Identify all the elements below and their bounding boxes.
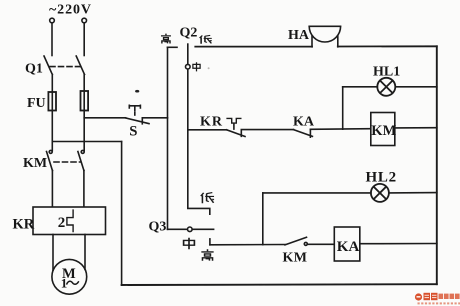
label 高 (Q3 high) [201,249,213,261]
svg-text:KM: KM [23,156,47,171]
label 低 (Q2 low) [200,35,212,43]
thermal contact link (dashed) [233,124,235,130]
selector Q2 high contact stub [168,46,178,48]
wire HL1 tap [342,87,344,129]
thermal contact KR fixed tick [240,130,242,137]
wire KR to motor 2 [84,235,86,270]
wire KM aux to KA coil [307,243,334,245]
wire rail KR to KA [241,129,293,131]
wire cross tie [52,141,121,143]
ink speck [208,67,210,69]
wire to lamp HL1 [343,86,378,88]
contact KM aux terminal [304,242,307,245]
thermal relay KR heater box [33,207,106,235]
wire L2 through fuse [83,75,85,151]
ink dot [135,90,139,93]
selector Q3 high contact tick [209,239,211,245]
svg-text:HL1: HL1 [373,65,400,80]
contactor KM main contact 1 blade [47,152,53,171]
wire lamp HL2 to bus [389,192,437,194]
lamp HL1 [377,78,395,96]
label 中 (Q3 middle) [184,238,195,250]
wire control rail left [188,129,227,131]
terminal L [50,18,55,23]
wire bell to right bus [338,45,437,47]
svg-text:KA: KA [293,115,315,130]
svg-text:Q3: Q3 [149,220,167,235]
wire KM coil to bus [395,127,437,129]
svg-text:Q2: Q2 [180,26,198,41]
lamp HL2 [371,184,389,202]
switch S fixed contact tick [141,118,143,124]
wire HL2 tap [262,193,264,245]
svg-text:HA: HA [288,28,310,43]
wire L1 to KR [51,171,53,208]
svg-text:KR: KR [13,217,35,233]
switch S handle [129,105,140,111]
thermal contact KR blade [227,130,246,137]
relay contact KA fixed tick [309,129,311,137]
terminal N [82,18,87,23]
label ~ (phase tilde) [67,281,79,284]
wire right bus [436,46,438,284]
wire L1 drop [51,23,53,56]
wire S to high bus [142,117,167,119]
selector Q3 pivot terminal [188,227,193,232]
heater element symbol [67,210,73,231]
contactor KM main contact 1 terminal [49,150,52,153]
wire L1 through fuse [51,75,53,151]
selector Q3 pole wire [168,228,214,230]
wire lamp HL1 to bus [395,86,437,88]
switch Q1 pole 1 blade [44,56,52,75]
svg-text:2: 2 [58,215,66,231]
svg-text:KM: KM [371,123,396,139]
wire rail KA to KM coil [310,128,370,131]
thermal function symbol [227,118,241,123]
wire Q2 pole to Q3 low contact [188,130,210,214]
svg-text:KM: KM [283,251,308,266]
label 低 (Q3 low) [201,193,214,204]
wire KA coil to bus [360,243,437,245]
bell HA [309,26,340,47]
svg-text:1: 1 [61,276,68,291]
motor M [52,259,87,294]
svg-text:~220V: ~220V [49,3,92,18]
svg-text:KA: KA [337,239,360,255]
switch Q1 pole 2 blade [76,56,84,75]
contactor coil KM [371,113,395,146]
wire KR to motor 1 [52,235,54,271]
wire to lamp HL2 [263,192,371,194]
wire tap to switch S [84,117,125,119]
contactor KM main contact 2 blade [78,152,84,171]
selector Q2 pole blade [187,44,189,130]
svg-text:FU: FU [27,96,46,111]
wire high bus [167,47,169,229]
contact KM aux blade [285,237,307,245]
fuse FU1 [48,92,56,111]
wire L2 drop [83,23,85,56]
watermark logo [415,293,460,305]
contactor KM main contact 2 terminal [81,150,84,153]
fuse FU2 [81,91,89,111]
selector Q2 pivot terminal [186,64,191,69]
switch Q1 linkage (dashed) [50,66,80,68]
svg-text:S: S [129,124,137,140]
svg-text:KR: KR [200,115,223,130]
wire L2 to KR [83,171,85,208]
contactor KM linkage (dashed) [54,161,80,163]
switch S handle link (dashed) [134,113,136,117]
relay contact KA blade [294,130,313,137]
svg-text:HL2: HL2 [366,170,397,186]
selector Q2 low contact wire [195,46,312,48]
wire bottom rail [122,283,437,286]
relay coil KA [334,227,360,261]
wire rail Q3 to KM contact [210,244,285,246]
label 高 (Q2 high) [161,34,171,44]
svg-text:Q1: Q1 [25,62,43,77]
label 中 (Q2 middle) [193,62,200,71]
wire left return drop [121,142,123,286]
switch S blade [126,118,150,124]
